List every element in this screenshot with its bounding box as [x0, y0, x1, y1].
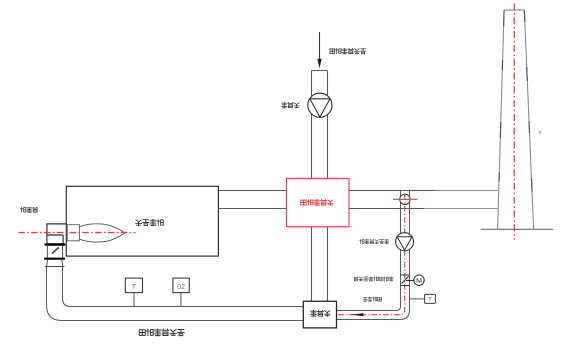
burner centerline (red dash-dot) [18, 232, 135, 234]
flow arrow on recirc line [351, 313, 364, 316]
O2 sensor [180, 293, 182, 306]
M motor circle [414, 275, 424, 285]
label kong-qi-yu-re-qi [301, 199, 333, 205]
damper valve circle on flue [400, 194, 410, 204]
label dao-re-you-lu [136, 219, 164, 225]
flame [80, 224, 125, 242]
burner nozzle box [67, 225, 79, 241]
duct preheater->mixer [312, 227, 328, 302]
temperature sensor T2 box [410, 298, 425, 300]
red line through valve [393, 198, 417, 200]
mixer box [303, 301, 336, 328]
combustion air pipe [47, 267, 304, 321]
gas valve [47, 246, 62, 258]
label zhu-ran-kong-qi-guan-lu [139, 329, 184, 336]
cold air inlet line [319, 32, 321, 61]
inlet arrow [317, 59, 321, 69]
blower fan triangle [310, 99, 330, 117]
flue pipe preheater->chimney [349, 191, 437, 209]
burner flange 1 [45, 243, 66, 245]
label yan-qi-xun-huan-feng-ji [360, 239, 389, 243]
motor control valve [401, 275, 414, 286]
stray mark [539, 131, 541, 135]
ground line under chimney [481, 228, 553, 230]
blower fan circle [308, 93, 332, 117]
burner elbow [47, 224, 67, 244]
recirc fan circle [396, 233, 414, 251]
svg-text:M: M [416, 278, 422, 285]
svg-text:T: T [132, 284, 137, 291]
air preheater box [287, 178, 350, 226]
label xun-huan-yan-qi [363, 297, 382, 301]
recirc pipe vertical + bend to mixer [337, 191, 410, 320]
blower duct pipe [312, 71, 328, 179]
label hun-he-qi [311, 310, 330, 316]
svg-text:02: 02 [177, 284, 185, 291]
chimney side dark segments [498, 10, 534, 229]
label zhu-ran-leng-feng-ru-kou [330, 48, 366, 53]
red recirc line vertical [337, 195, 405, 315]
chimney stack [498, 10, 534, 229]
recirc fan triangle [397, 237, 412, 250]
burner flange 2 [44, 258, 65, 260]
label ran-shao-qi [21, 207, 38, 212]
label yan-qi-xun-huan-kong-zhi-fa-men [354, 277, 393, 281]
chimney centerline (red dash-dot) [513, 4, 515, 240]
heat-transfer oil furnace box [66, 186, 218, 256]
temperature sensor T1 [133, 293, 135, 306]
flue pipe furnace->preheater [218, 191, 286, 209]
reducer [45, 260, 64, 267]
label gu-feng-ji [282, 102, 299, 107]
svg-text:T: T [428, 296, 432, 303]
